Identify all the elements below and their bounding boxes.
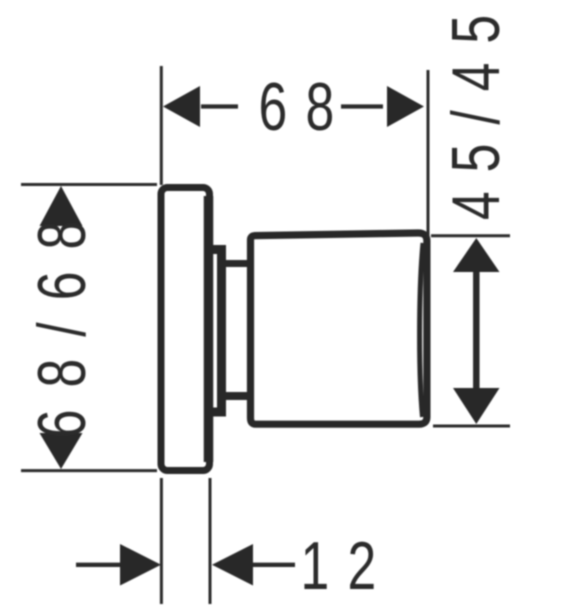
svg-text:12: 12 — [301, 527, 395, 604]
svg-text:45/45: 45/45 — [437, 0, 514, 220]
svg-text:68: 68 — [259, 68, 353, 145]
svg-text:68/68: 68/68 — [23, 199, 100, 438]
